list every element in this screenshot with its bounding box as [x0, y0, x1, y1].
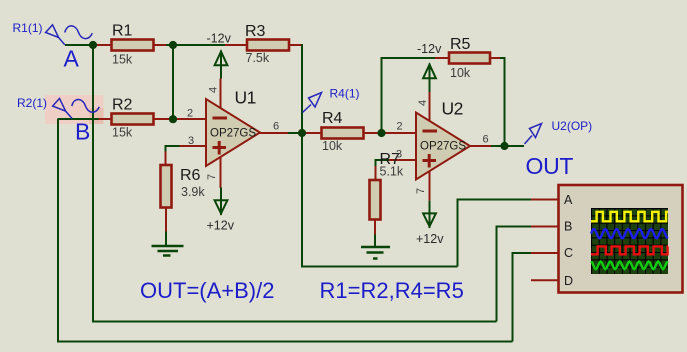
wire vertical B down to bus	[57, 119, 59, 342]
svg-text:U2(OP): U2(OP)	[552, 119, 593, 133]
wire R3 to feedback vertical	[289, 44, 303, 46]
svg-text:+12v: +12v	[207, 219, 235, 233]
resistor R6 (vertical)	[161, 165, 206, 208]
svg-text:6: 6	[273, 121, 279, 133]
svg-text:15k: 15k	[112, 53, 133, 67]
svg-text:3.9k: 3.9k	[181, 185, 205, 199]
svg-text:6: 6	[483, 134, 489, 146]
wire R1 to mid node	[154, 44, 169, 46]
wire node to R4	[302, 132, 322, 134]
wire R4 to node	[363, 132, 382, 134]
svg-text:5.1k: 5.1k	[380, 165, 404, 179]
oscilloscope screen	[591, 208, 668, 274]
svg-text:2: 2	[187, 108, 193, 120]
wire node A to R1	[93, 44, 112, 46]
wire R5 down to U2 out	[504, 57, 506, 146]
generator probe R1(1)	[13, 21, 93, 45]
op-amp U1	[206, 79, 260, 189]
voltage probe U2(OP)	[525, 119, 593, 144]
svg-text:B: B	[75, 119, 90, 145]
svg-text:R4: R4	[322, 110, 343, 127]
wire U2 pin3	[389, 159, 416, 161]
voltage probe R4(1)	[303, 87, 360, 113]
wire to R3	[225, 44, 247, 46]
op-amp U2	[416, 92, 470, 201]
svg-text:7: 7	[206, 174, 218, 180]
ground under R7	[361, 247, 390, 259]
power +12v U2	[416, 201, 444, 246]
node U1 out junction	[298, 129, 306, 137]
svg-text:R2: R2	[112, 97, 133, 114]
svg-text:4: 4	[417, 100, 429, 106]
svg-text:R1(1): R1(1)	[13, 21, 43, 35]
resistor R4	[322, 110, 364, 153]
ground under R6	[152, 246, 184, 256]
svg-text:10k: 10k	[322, 139, 343, 153]
svg-text:15k: 15k	[112, 126, 133, 140]
node mid top junction	[169, 41, 177, 49]
wire vertical node A down to bus	[92, 45, 94, 322]
wire R6 bottom to ground	[165, 208, 167, 232]
svg-text:U1: U1	[235, 88, 256, 108]
wire scope ch A	[458, 199, 532, 201]
resistor R2	[112, 97, 154, 140]
wire B row	[58, 118, 99, 120]
wire U1 pin3	[180, 145, 207, 147]
wire scope ch B	[497, 226, 532, 228]
svg-text:-12v: -12v	[417, 42, 442, 56]
power -12v U2	[417, 42, 442, 92]
svg-text:R2(1): R2(1)	[17, 96, 47, 110]
wire R5 row	[381, 57, 436, 59]
svg-text:R4(1): R4(1)	[330, 87, 360, 101]
svg-text:D: D	[564, 274, 573, 288]
svg-text:R5: R5	[450, 36, 471, 53]
svg-text:+12v: +12v	[416, 232, 444, 246]
svg-text:R1: R1	[112, 23, 133, 40]
node U2 out junction	[500, 142, 508, 150]
svg-text:4: 4	[208, 87, 220, 93]
wire gen A to node A	[65, 44, 97, 46]
svg-text:A: A	[564, 193, 573, 207]
svg-text:7: 7	[415, 188, 427, 194]
svg-text:R6: R6	[180, 167, 201, 184]
highlight box around generator B	[45, 95, 104, 124]
wire feedback vertical x=302	[301, 44, 303, 267]
svg-text:C: C	[564, 246, 573, 260]
wire U2 feedback vertical x=381.5	[381, 58, 383, 133]
svg-text:7.5k: 7.5k	[246, 51, 270, 65]
wire R7 bottom to ground	[374, 220, 376, 235]
waveform channel C (red square)	[591, 246, 668, 254]
svg-text:3: 3	[396, 149, 402, 161]
waveform channel A (yellow square)	[591, 212, 668, 222]
wire U2 output	[469, 145, 491, 147]
svg-text:10k: 10k	[450, 66, 471, 80]
svg-text:2: 2	[397, 121, 403, 133]
svg-text:R1=R2,R4=R5: R1=R2,R4=R5	[320, 278, 464, 303]
node mid B junction	[169, 115, 177, 123]
scope pin stubs	[531, 199, 559, 201]
waveform channel B (blue sine)	[591, 229, 668, 238]
wire vertical mid node to B row	[172, 45, 174, 119]
resistor R7 (vertical)	[370, 151, 404, 220]
power -12v U1	[207, 32, 232, 79]
svg-text:-12v: -12v	[207, 32, 232, 46]
wire scope ch C	[513, 252, 532, 254]
svg-text:A: A	[64, 46, 80, 72]
resistor R1	[112, 23, 154, 67]
svg-text:OUT=(A+B)/2: OUT=(A+B)/2	[140, 278, 274, 303]
svg-text:U2: U2	[442, 99, 463, 119]
svg-text:3: 3	[188, 135, 194, 147]
wire R2 to mid junction	[154, 118, 207, 120]
svg-text:R3: R3	[245, 23, 266, 40]
svg-text:OP27GS: OP27GS	[420, 141, 466, 153]
svg-text:B: B	[564, 220, 572, 234]
waveform channel D (green sine)	[591, 262, 668, 270]
wire U1 output	[259, 132, 288, 134]
power +12v U1	[207, 188, 235, 233]
node A junction	[89, 41, 97, 49]
wire node to U2 pin2	[382, 132, 417, 134]
resistor R5	[449, 36, 490, 80]
svg-text:OP27GS: OP27GS	[210, 128, 256, 140]
resistor R3	[245, 23, 289, 65]
node U2 in junction	[377, 129, 385, 137]
svg-text:OUT: OUT	[526, 153, 574, 179]
oscilloscope body	[559, 185, 683, 293]
generator probe R2(1)	[17, 96, 99, 119]
